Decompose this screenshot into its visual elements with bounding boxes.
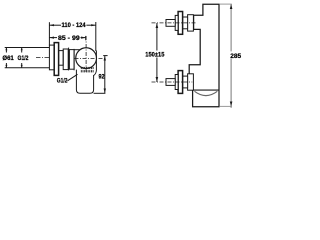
throat face line	[73, 49, 75, 70]
union nut	[49, 45, 54, 70]
pipe bottom line	[5, 67, 50, 69]
svg-text:285: 285	[230, 53, 241, 60]
dimension 150 bottom arrow	[156, 77, 159, 82]
upper union flange	[175, 15, 178, 30]
dimension 110-124 line right segment	[86, 24, 96, 26]
knob circle	[76, 48, 97, 69]
dimension 92 line	[104, 56, 106, 93]
throat	[69, 50, 74, 70]
svg-text:110 - 124: 110 - 124	[62, 22, 86, 29]
dimension 92 top extension bar	[103, 55, 107, 57]
shared extension line left	[48, 22, 50, 45]
upper union escutcheon	[178, 12, 183, 35]
lower union cone	[188, 74, 194, 90]
label 150±15	[145, 51, 165, 58]
valve lower housing	[76, 70, 93, 94]
dimension 150 line	[156, 23, 158, 82]
pipe tick arrow 1	[5, 48, 7, 53]
body outline	[189, 4, 219, 106]
union neck	[59, 51, 64, 66]
body top line to circle	[74, 49, 81, 51]
lower union nut	[166, 79, 175, 86]
dimension 110-124 left arrow	[49, 24, 54, 26]
upper union centerline	[152, 22, 197, 24]
thread hatch row 2	[81, 70, 93, 72]
escutcheon flange	[54, 43, 58, 76]
cone face	[68, 48, 70, 71]
dimension 85-99 left arrow	[49, 37, 54, 39]
union cone	[63, 49, 68, 70]
lower union escutcheon	[178, 71, 183, 94]
lower union centerline	[152, 81, 193, 83]
label 85-99	[58, 35, 81, 41]
dimension 285 bottom arrow	[230, 102, 233, 107]
svg-text:92: 92	[99, 74, 105, 81]
extension line right of 110-124	[95, 22, 97, 51]
pipe tick arrow 2	[21, 48, 23, 53]
upper union cone	[188, 15, 194, 31]
svg-text:85 - 99: 85 - 99	[58, 35, 80, 42]
dimension 110-124 right arrow	[91, 24, 96, 26]
body right edge	[94, 51, 97, 76]
thread hatch row 1	[81, 67, 93, 69]
upper union neck	[183, 17, 188, 29]
dimension 150 top arrow	[156, 23, 159, 28]
dimension 110-124 line left segment	[49, 24, 61, 26]
bottom extension line (housing bottom extended)	[94, 92, 106, 94]
bottom cap line	[193, 89, 218, 91]
dimension 85-99 line	[49, 37, 57, 39]
dimension 92 bottom arrow	[104, 89, 106, 94]
upper union nut	[166, 20, 175, 27]
pipe tick arrow 3	[5, 63, 7, 68]
pipe centerline	[36, 56, 49, 58]
svg-text:Ø61: Ø61	[2, 55, 14, 62]
lower union flange	[175, 75, 178, 90]
dimension 285 top extension	[220, 3, 232, 5]
vertical centerline of knob	[85, 36, 87, 73]
pipe tick arrow 4	[21, 63, 23, 68]
dimension 285 line	[230, 4, 232, 108]
dimension 285 top arrow	[230, 4, 233, 9]
label 285	[230, 51, 242, 58]
svg-text:G1/2: G1/2	[57, 77, 68, 84]
G1/2 leader line	[68, 74, 78, 81]
pipe top line	[5, 47, 50, 49]
dimension 92 top arrow	[104, 56, 106, 61]
dimension 285 bottom extension	[219, 105, 232, 107]
tick right end of 85-99	[85, 36, 87, 40]
svg-text:G1/2: G1/2	[18, 55, 29, 62]
svg-text:150±15: 150±15	[145, 52, 164, 59]
lower union neck	[183, 76, 188, 88]
label 110-124	[61, 22, 86, 28]
spout arc	[195, 91, 218, 95]
dimension 85-99 right arrow	[81, 37, 86, 39]
horizontal centerline of knob	[75, 58, 107, 60]
